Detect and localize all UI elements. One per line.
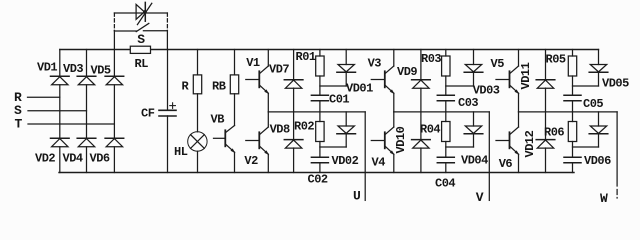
- wire brake right rail: [166, 31, 168, 50]
- wire column 2 lower: [86, 147, 88, 173]
- wire junction R06-VD06: [573, 146, 599, 148]
- svg-text:VD8: VD8: [270, 123, 290, 137]
- svg-text:V3: V3: [368, 57, 382, 71]
- svg-text:C05: C05: [583, 97, 603, 111]
- svg-text:R03: R03: [421, 52, 441, 66]
- diode VD06: [584, 112, 611, 168]
- wire phase node U: [268, 111, 365, 113]
- svg-text:VD9: VD9: [397, 65, 417, 79]
- wire RB to VB collector: [234, 94, 236, 126]
- diode VD3: [63, 62, 96, 85]
- wire column 3 lower: [113, 147, 115, 173]
- wire R branch upper: [197, 50, 199, 75]
- capacitor C06: [564, 157, 581, 172]
- svg-text:V6: V6: [499, 157, 513, 171]
- input S: [14, 103, 87, 118]
- svg-text:RL: RL: [135, 57, 149, 71]
- svg-text:C01: C01: [329, 93, 349, 107]
- diode VD04: [461, 112, 488, 168]
- wire phase node W: [519, 111, 618, 113]
- resistor RB: [212, 75, 239, 94]
- diode VD7: [269, 50, 303, 112]
- diode VD6: [90, 138, 124, 165]
- diode VD03: [464, 50, 500, 98]
- transistor V4: [371, 112, 394, 173]
- svg-text:V4: V4: [372, 156, 386, 170]
- capacitor C04: [435, 157, 455, 190]
- diode VD4: [63, 138, 96, 165]
- svg-text:VD01: VD01: [346, 82, 373, 96]
- wire HL to bus: [197, 151, 199, 172]
- wire column 1 lower: [59, 147, 61, 173]
- wire brake dashed right: [166, 13, 168, 31]
- svg-text:VD06: VD06: [584, 154, 611, 168]
- diode brake freewheel: [136, 2, 152, 24]
- svg-text:C03: C03: [458, 96, 478, 110]
- svg-text:HL: HL: [174, 145, 188, 159]
- svg-text:VD05: VD05: [602, 77, 629, 91]
- wire brake top line: [114, 12, 167, 14]
- capacitor C01: [311, 93, 349, 112]
- resistor R02: [294, 112, 324, 157]
- svg-text:VD12: VD12: [523, 130, 537, 157]
- svg-text:VB: VB: [211, 113, 225, 127]
- transistor V2: [244, 112, 269, 173]
- wire phase node V: [394, 111, 490, 113]
- resistor R03: [421, 50, 450, 96]
- capacitor C02: [308, 157, 329, 186]
- svg-text:VD3: VD3: [63, 62, 83, 76]
- input T: [15, 117, 115, 132]
- svg-text:R02: R02: [294, 120, 314, 134]
- wire column 3 middle: [113, 85, 115, 138]
- diode VD01: [337, 50, 373, 96]
- svg-text:C02: C02: [308, 173, 328, 187]
- svg-text:T: T: [15, 117, 23, 132]
- diode VD05: [589, 50, 629, 91]
- diode VD8: [270, 112, 303, 173]
- svg-text:R06: R06: [544, 126, 564, 140]
- svg-text:U: U: [353, 189, 360, 204]
- diode VD11: [519, 50, 555, 112]
- node output V: [476, 112, 490, 205]
- transistor VB: [211, 113, 236, 154]
- wire column 1 middle: [59, 85, 61, 138]
- svg-text:VD1: VD1: [37, 61, 57, 75]
- wire column 2 middle: [86, 85, 88, 138]
- capacitor CF: [141, 103, 176, 121]
- switch S: [114, 23, 167, 47]
- wire column 3 upper: [113, 50, 115, 77]
- wire junction R05-VD05: [573, 85, 599, 87]
- svg-text:R05: R05: [546, 53, 566, 67]
- wire CF rail lower: [167, 116, 169, 173]
- diode VD5: [91, 64, 124, 85]
- resistor R05: [546, 50, 577, 96]
- resistor R01: [296, 50, 325, 96]
- svg-text:V5: V5: [491, 57, 505, 71]
- svg-text:VD04: VD04: [461, 154, 488, 168]
- wire VB emitter to bus: [234, 152, 236, 172]
- capacitor C05: [564, 95, 603, 112]
- resistor RL: [130, 46, 150, 71]
- wire brake dashed left: [113, 13, 115, 31]
- wire DC- bottom bus: [59, 172, 574, 174]
- diode VD12: [523, 112, 555, 173]
- transistor V6: [496, 112, 519, 173]
- svg-text:VD2: VD2: [35, 152, 55, 166]
- wire RB branch upper: [234, 50, 236, 75]
- diode VD02: [332, 112, 359, 168]
- svg-text:R04: R04: [420, 123, 440, 137]
- wire brake left rail: [113, 31, 115, 50]
- transistor V3: [368, 50, 395, 112]
- wire junction R04-VD04: [446, 146, 474, 148]
- svg-text:C04: C04: [435, 177, 455, 191]
- transistor V5: [491, 50, 520, 112]
- svg-text:VD4: VD4: [63, 152, 83, 166]
- resistor R04: [420, 112, 450, 157]
- transistor V1: [246, 50, 269, 112]
- input R: [14, 90, 60, 105]
- svg-text:W: W: [600, 191, 608, 206]
- svg-text:VD10: VD10: [394, 126, 408, 153]
- node output U: [353, 112, 365, 204]
- wire junction R03-VD03: [446, 85, 474, 87]
- wire DC+ top bus: [60, 49, 599, 51]
- diode VD1: [37, 61, 69, 85]
- svg-text:VD5: VD5: [91, 64, 111, 78]
- svg-text:R01: R01: [296, 50, 316, 64]
- wire CF rail upper: [167, 50, 169, 111]
- wire junction R01-VD01: [320, 85, 346, 87]
- diode VD2: [35, 138, 69, 165]
- wire R to HL: [197, 94, 199, 132]
- svg-text:VD6: VD6: [90, 152, 110, 166]
- svg-text:V: V: [476, 190, 484, 205]
- wire junction R02-VD02: [320, 146, 346, 148]
- resistor R06: [544, 112, 577, 157]
- resistor R: [182, 75, 202, 94]
- diode VD9: [397, 50, 430, 112]
- wire column 2 upper: [86, 50, 88, 77]
- diode VD10: [394, 112, 430, 173]
- lamp HL: [174, 132, 207, 159]
- svg-text:VD02: VD02: [332, 154, 359, 168]
- svg-text:VD7: VD7: [269, 63, 289, 77]
- svg-text:VD11: VD11: [519, 62, 533, 89]
- capacitor C03: [437, 95, 478, 112]
- node output W: [600, 112, 617, 206]
- svg-text:V1: V1: [246, 56, 260, 70]
- svg-text:RB: RB: [212, 80, 226, 94]
- wire column 1 upper: [59, 50, 61, 77]
- svg-text:S: S: [137, 32, 145, 47]
- svg-text:V2: V2: [244, 154, 258, 168]
- svg-text:CF: CF: [141, 107, 155, 121]
